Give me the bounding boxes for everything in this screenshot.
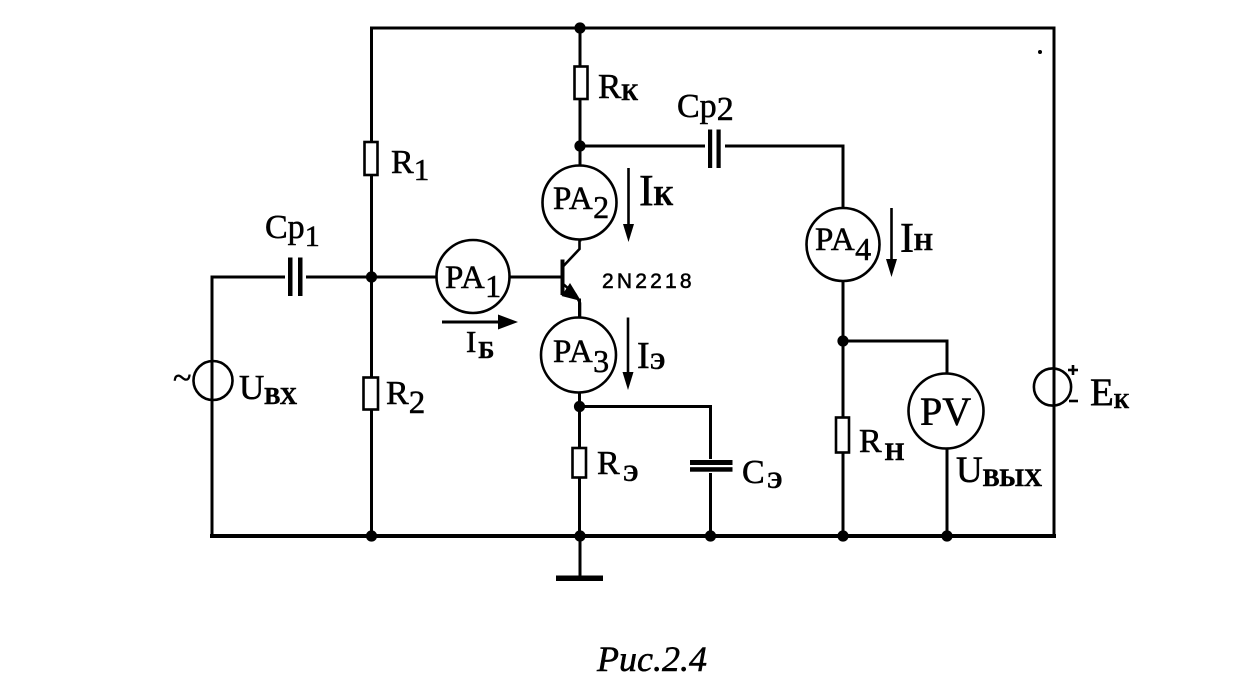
resistor Rk bbox=[575, 67, 639, 107]
svg-text:2N2218: 2N2218 bbox=[602, 270, 695, 293]
resistor R1 bbox=[365, 142, 430, 187]
junction node bottom R2 bbox=[366, 530, 377, 541]
stray dot artifact bbox=[1038, 50, 1042, 54]
wire left source branch vertical bbox=[211, 277, 214, 536]
ammeter PA3 bbox=[541, 318, 616, 393]
capacitor Cp1 bbox=[265, 209, 320, 296]
svg-text:Рис.2.4: Рис.2.4 bbox=[596, 639, 707, 679]
source Uvx bbox=[173, 360, 298, 410]
wire PA4 node to PV branch bbox=[843, 341, 947, 536]
wire bottom rail bbox=[212, 534, 1054, 538]
junction node base divider bbox=[366, 271, 377, 282]
junction node collector / Cp2 bbox=[574, 140, 585, 151]
junction node bottom Rn bbox=[837, 530, 848, 541]
wire top rail bbox=[372, 27, 1055, 30]
wire emitter bypass branch to Ce bbox=[580, 407, 711, 537]
ground bbox=[556, 536, 603, 581]
capacitor Ce bbox=[690, 454, 782, 493]
current arrow Ie bbox=[623, 318, 666, 391]
source Ek bbox=[1034, 365, 1130, 414]
resistor R2 bbox=[364, 375, 426, 421]
svg-text:~: ~ bbox=[173, 360, 191, 397]
wire right Ek branch vertical bbox=[1053, 28, 1056, 536]
current arrow Ik bbox=[623, 166, 674, 242]
wire Cp2 line from collector node to PA4 branch bbox=[580, 145, 843, 148]
transistor Q1 2N2218 bbox=[562, 240, 695, 319]
junction node PA4 / PV branch bbox=[837, 335, 848, 346]
wire input line from source to transistor base bbox=[212, 276, 563, 279]
junction node bottom Ce bbox=[705, 530, 716, 541]
wire emitter branch vertical (PA3, Re, ground) bbox=[578, 300, 581, 536]
ammeter PA2 bbox=[543, 166, 617, 240]
current arrow Ib bbox=[442, 315, 518, 365]
svg-text:Cp2: Cp2 bbox=[677, 88, 734, 128]
capacitor Cp2 bbox=[677, 88, 734, 168]
junction node at top rail / Rk bbox=[574, 22, 585, 33]
ammeter PA4 bbox=[807, 208, 880, 281]
resistor Re bbox=[573, 445, 639, 486]
junction node emitter / Ce branch bbox=[574, 401, 585, 412]
current arrow In bbox=[886, 208, 933, 277]
voltmeter PV bbox=[909, 374, 984, 449]
wire R1-R2 branch vertical bbox=[370, 28, 373, 536]
ammeter PA1 bbox=[437, 240, 510, 313]
svg-text:PV: PV bbox=[920, 389, 971, 434]
junction node bottom ground bbox=[574, 530, 585, 541]
wire PA4-Rn branch vertical bbox=[842, 146, 845, 536]
resistor Rn bbox=[836, 418, 905, 467]
junction node bottom PV bbox=[941, 530, 952, 541]
wire collector branch vertical (Rk, PA2) bbox=[579, 28, 582, 240]
